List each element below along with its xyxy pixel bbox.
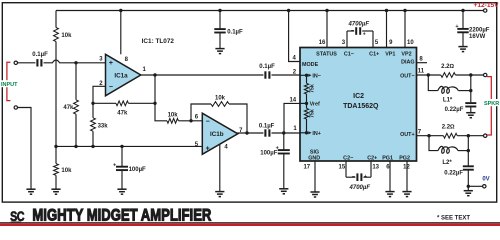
inductor L1 [428, 75, 471, 93]
wire: IC1b output to coupling cap [238, 132, 264, 135]
node: bias at 47k [74, 145, 77, 148]
wire: IC1a pin2 input [93, 86, 106, 103]
capacitor 0.1uF to IN+ [265, 129, 269, 136]
wire: internal input chain [300, 75, 307, 133]
svg-text:10: 10 [407, 40, 414, 46]
label DIAG [401, 59, 414, 65]
capacitor 100uF at IN+ [278, 150, 290, 153]
node: rail junction at 2200uF [461, 9, 464, 12]
svg-text:C1−: C1− [344, 51, 354, 57]
wire: 2.2ohm to terminal OUT- [455, 74, 483, 76]
node: IC1b output junction [245, 131, 248, 134]
label 33k [98, 124, 109, 130]
svg-text:OUT+: OUT+ [400, 132, 415, 138]
label 0.1uF decoupling [227, 29, 243, 35]
wire: cap to IC2 pin1 [272, 132, 301, 134]
node: rail junction at pin16 [325, 9, 328, 12]
wire: to 0V terminal [468, 185, 482, 187]
svg-text:0.1µF: 0.1µF [32, 52, 48, 58]
label minus C2 [352, 174, 355, 180]
terminal: input bottom [14, 106, 17, 109]
ground PG2 [402, 192, 411, 197]
label 100uF IN+ [260, 151, 277, 157]
svg-text:+: + [455, 24, 458, 30]
wire: input ground leg [18, 108, 31, 190]
label + 100uF IN+ [276, 145, 279, 151]
ground 100uF bias [117, 189, 126, 194]
svg-text:75k: 75k [310, 109, 316, 118]
node: IC1b -input node [189, 119, 192, 122]
svg-text:C2−: C2− [343, 155, 353, 161]
ground 2200uF [458, 47, 467, 52]
wire: OUT- junction down to 0.22uF [470, 75, 472, 102]
svg-text:47k: 47k [63, 105, 74, 111]
svg-text:0V: 0V [482, 176, 489, 182]
wire: cap to IC1a pin3 with hop [44, 60, 106, 63]
svg-text:* SEE TEXT: * SEE TEXT [437, 216, 470, 222]
wire: pin10 VP2 to rail [404, 11, 406, 48]
wire: 2.2ohm to terminal OUT+ [457, 135, 483, 137]
svg-text:10k: 10k [168, 113, 179, 119]
wire: 0.22uF OUT- to ground [470, 107, 472, 113]
label 75k lower [310, 109, 316, 118]
svg-text:IC1a: IC1a [114, 73, 128, 80]
label 100uF bias [129, 167, 146, 173]
label L1* [443, 97, 453, 103]
svg-text:IC2: IC2 [353, 93, 364, 100]
label pin10 [407, 40, 414, 46]
svg-text:2.2Ω: 2.2Ω [442, 125, 455, 131]
wire: MODE pin4 to rail [289, 11, 300, 62]
terminal OUT- [484, 73, 487, 76]
label C2+ [367, 155, 377, 161]
wire: bias node to 10k lower [55, 146, 57, 163]
wire: OUT- lead [417, 74, 441, 76]
svg-text:OUT−: OUT− [400, 73, 415, 79]
label 47k feedback [117, 110, 128, 116]
ground SIG GND [310, 192, 319, 197]
svg-text:VP1: VP1 [385, 51, 395, 57]
label pin7 IC2 [418, 129, 422, 135]
node: rail junction at pin10 [403, 9, 406, 12]
ground PG1 [385, 192, 394, 197]
wire: OUT+ junction down to 0.22uF [467, 136, 469, 167]
node: feedback right junction [153, 102, 156, 105]
svg-text:4700µF: 4700µF [349, 185, 371, 191]
wire: rail to 10k upper [55, 11, 57, 28]
speaker bracket (red) [487, 77, 491, 135]
capacitor 4700uF C1 [356, 27, 360, 35]
label 47k input [63, 105, 74, 111]
label 10k upper [61, 33, 72, 39]
node: rail junction at decoupling cap [218, 9, 221, 12]
svg-text:STATUS: STATUS [316, 51, 337, 57]
op-amp IC1a [106, 54, 141, 96]
wire: 10k upper to bias node [55, 42, 57, 147]
resistor 10k upper divider [54, 28, 59, 42]
label 0.1uF IN- [259, 64, 275, 70]
wire: 10k lower to ground [55, 175, 57, 189]
wire: cap to IC2 pin2 [272, 74, 301, 76]
wire: 47k fb right lead [128, 102, 155, 104]
resistor 47k feedback IC1a [116, 101, 128, 106]
label SPKR [484, 99, 500, 107]
label pin13 [372, 164, 379, 170]
bottom rule [0, 222, 500, 223]
svg-text:4700µF: 4700µF [348, 21, 370, 27]
capacitor 0.22uF OUT+ [463, 166, 474, 169]
wire: pin17 SIG GND to ground [314, 161, 316, 192]
IC U2 TDA1562Q body [300, 48, 417, 162]
svg-text:L1*: L1* [443, 97, 453, 103]
node: bias at 33k [91, 145, 94, 148]
svg-text:14: 14 [289, 98, 296, 104]
wire: pin8 DIAG stub [417, 62, 428, 64]
label pin7 IC1b [239, 128, 243, 134]
wire: C1 bridge [347, 30, 373, 32]
label OUT+ [400, 132, 415, 138]
input bracket (red) [7, 62, 10, 100]
svg-text:2200µF: 2200µF [469, 27, 490, 33]
wire: pin6 PG1 to ground [389, 161, 391, 192]
node: internal IN- [305, 74, 308, 77]
label 10k lower [61, 168, 72, 174]
wire: node to 47k [75, 63, 77, 100]
resistor 33k [91, 118, 96, 131]
wire: output down to feedback [154, 75, 156, 103]
label pin12 [403, 164, 410, 170]
label plus C2 [364, 174, 367, 180]
capacitor 100uF bias bypass [116, 167, 128, 170]
svg-text:+: + [206, 145, 210, 152]
svg-text:VP2: VP2 [401, 51, 411, 57]
node: OUT+ L2 tap [427, 134, 430, 137]
label 0.22uF OUT- [445, 107, 464, 113]
label pin4 IC2 [293, 55, 297, 61]
svg-text:100µF: 100µF [129, 167, 146, 173]
svg-text:0.1µF: 0.1µF [259, 64, 275, 70]
node: IC1a output junction [153, 73, 156, 76]
wire: fb left leg IC1b [191, 104, 211, 121]
label VP2 [401, 51, 411, 57]
svg-text:IC1: TL072: IC1: TL072 [142, 38, 175, 45]
label 2.2ohm OUT+ [442, 125, 455, 131]
label pin1 IC1a [143, 67, 147, 73]
node: rail junction at IC1 pin8 [119, 9, 122, 12]
label 4700uF C2 [349, 185, 371, 191]
svg-text:0.22µF: 0.22µF [445, 107, 464, 113]
label C2- [343, 155, 353, 161]
capacitor 2200uF reservoir [457, 29, 468, 32]
resistor 75k internal lower [304, 108, 308, 119]
svg-text:0.1µF: 0.1µF [227, 29, 243, 35]
svg-text:−: − [206, 118, 210, 125]
label pin4 IC1b [224, 145, 228, 151]
wire: pin16 STATUS to rail [326, 11, 328, 48]
node: IC1a -input node [91, 102, 94, 105]
label SIG GND [308, 150, 320, 162]
svg-text:75k: 75k [310, 84, 316, 93]
label 10k feedback IC1b [215, 95, 226, 101]
svg-text:IC1b: IC1b [210, 131, 224, 138]
ground input [26, 189, 35, 194]
wire: 100uF to ground [121, 170, 123, 189]
capacitor 0.1uF decoupling [214, 29, 225, 32]
node: L2 right junction [467, 149, 470, 152]
label L2* [442, 160, 452, 166]
wire: IN+ node to 100uF [283, 133, 285, 150]
label pin3 IC2 [342, 40, 346, 46]
op-amp IC1b [202, 113, 238, 154]
label pin11 [418, 69, 425, 75]
wire: 47k fb left lead [93, 102, 116, 104]
label pin1 IC2 [293, 126, 297, 132]
label pin3 IC1a [99, 57, 103, 63]
svg-text:12: 12 [403, 164, 410, 170]
wire: rail to decoupling cap [219, 11, 221, 30]
node: bias at 100uF [120, 145, 123, 148]
label 4700uF C1 [348, 21, 370, 27]
label Vref [310, 101, 320, 107]
svg-text:16: 16 [319, 40, 326, 46]
ground 0.22uF OUT- [466, 113, 475, 118]
node: IC1a +input junction [74, 61, 77, 64]
bottom red strip [0, 223, 500, 226]
node: OUT- L1 tap [427, 73, 430, 76]
wire: 2200uF to ground [462, 32, 464, 46]
terminal 0V [483, 185, 486, 188]
svg-text:−: − [109, 84, 113, 91]
label 10k interstage [168, 113, 179, 119]
label 0V [482, 176, 489, 182]
wire: pin9 VP1 to rail [386, 11, 388, 48]
logo SC [10, 209, 24, 225]
label MODE [302, 62, 319, 68]
wire: node to 33k [92, 103, 94, 118]
wire: 47k to bias rail [75, 114, 77, 146]
node: IN+ node [282, 131, 285, 134]
label PG2 [399, 155, 410, 161]
svg-text:10k: 10k [61, 33, 72, 39]
svg-text:100µF: 100µF [260, 151, 277, 157]
capacitor 0.1uF input coupling [37, 59, 41, 66]
resistor 2.2ohm OUT- [441, 73, 456, 78]
label 75k upper [310, 84, 316, 93]
label plus C1 [363, 32, 366, 38]
svg-text:47k: 47k [117, 110, 128, 116]
svg-text:PG1: PG1 [382, 155, 393, 161]
label INPUT [1, 80, 18, 88]
svg-text:C2+: C2+ [367, 155, 377, 161]
label STATUS [316, 51, 337, 57]
svg-text:−: − [352, 174, 355, 180]
label IN+ [308, 131, 321, 137]
svg-text:17: 17 [303, 164, 310, 170]
wire: pin15 C2- stub [345, 161, 347, 177]
svg-text:IN+: IN+ [312, 131, 321, 137]
wire: pin5 C1+ stub [372, 31, 374, 48]
svg-text:MIGHTY MIDGET AMPLIFIER: MIGHTY MIDGET AMPLIFIER [32, 205, 211, 224]
ground 0V [464, 191, 473, 196]
svg-text:TDA1562Q: TDA1562Q [343, 103, 379, 110]
svg-text:0.1µF: 0.1µF [259, 124, 275, 130]
label +12-15V [473, 2, 499, 9]
capacitor 4700uF C2 [357, 173, 361, 181]
svg-text:INPUT: INPUT [1, 82, 18, 88]
wire: pin13 C2+ stub [370, 161, 372, 177]
wire: pin12 PG2 to ground [406, 161, 408, 192]
label pin5 IC1b [195, 142, 199, 148]
node: internal Vref [305, 102, 308, 105]
wire: bias to 100uF [121, 146, 123, 166]
wire: decoupling cap to ground [219, 33, 221, 49]
label + 100uF bias [113, 163, 116, 169]
wire: 33k to bias rail [92, 131, 94, 146]
node: L1 right junction [469, 89, 472, 92]
label PG1 [382, 155, 393, 161]
wire: OUT+ lead [417, 135, 444, 137]
label 16VW [469, 34, 486, 40]
terminal OUT+ [484, 134, 487, 137]
label 2.2ohm OUT- [441, 64, 454, 70]
svg-text:15: 15 [339, 164, 346, 170]
label C1- [344, 51, 354, 57]
label 0.1uF IN+ [259, 124, 275, 130]
wire: IC1a output run to IC2 IN- [141, 74, 264, 76]
label minus C1 [351, 28, 354, 34]
label 0.22uF OUT+ [444, 170, 463, 176]
svg-text:+: + [364, 174, 367, 180]
label pin14 IC2 [289, 98, 296, 104]
svg-text:33k: 33k [98, 124, 109, 130]
label 2200uF [469, 27, 490, 33]
label SEE TEXT [437, 216, 470, 222]
title MIGHTY MIDGET AMPLIFIER [32, 205, 211, 224]
svg-text:13: 13 [372, 164, 379, 170]
label pin2 IC1a [99, 81, 103, 87]
svg-text:11: 11 [418, 69, 425, 75]
node: OUT- output junction [469, 73, 472, 76]
capacitor 0.22uF OUT- [465, 103, 476, 106]
resistor 2.2ohm OUT+ [443, 133, 457, 138]
wire: 100uF to ground [283, 154, 285, 189]
svg-text:C1+: C1+ [369, 51, 379, 57]
svg-text:2.2Ω: 2.2Ω [441, 64, 454, 70]
svg-text:10k: 10k [61, 168, 72, 174]
node: rail junction at MODE [287, 9, 290, 12]
label pin6 IC2 [386, 164, 390, 170]
ground decoupling [215, 49, 224, 54]
wire: rail to 2200uF [462, 11, 464, 29]
label IC1: TL072 [142, 38, 175, 45]
resistor 10k interstage [167, 118, 178, 123]
wire: input to coupling cap [18, 62, 36, 64]
node: OUT+ output junction [467, 134, 470, 137]
svg-text:+: + [363, 32, 366, 38]
wire: IC1b pin4 to ground [219, 144, 221, 191]
wire: +12V supply rail [56, 10, 483, 12]
terminal: +12-15V supply [484, 9, 487, 12]
wire: IC1a pin8 to rail [120, 11, 122, 55]
inductor L2 [429, 136, 468, 154]
svg-text:−: − [351, 28, 354, 34]
svg-text:+: + [109, 60, 113, 67]
svg-text:DIAG: DIAG [401, 59, 414, 65]
svg-text:10k: 10k [215, 95, 226, 101]
label OUT- [400, 73, 415, 79]
svg-text:+12-15V: +12-15V [473, 2, 499, 9]
label pin9 [389, 40, 393, 46]
resistor 47k input bias [74, 100, 79, 114]
ground 100uF IN+ [279, 189, 288, 194]
svg-text:+: + [113, 163, 116, 169]
terminal: input top [14, 61, 17, 64]
label VP1 [385, 51, 395, 57]
label pin8 IC2 [419, 56, 423, 62]
ground divider [51, 189, 60, 194]
svg-text:MODE: MODE [302, 62, 319, 68]
wire: output node down to 10k [155, 103, 167, 121]
label pin6 IC1b [195, 115, 199, 121]
capacitor 0.1uF to IN- [265, 71, 269, 78]
label + 2200uF [455, 24, 458, 30]
ground IC1b pin4 [215, 192, 224, 197]
label IN- [308, 73, 321, 79]
label pin2 IC2 [293, 69, 297, 75]
wire: fb right leg IC1b [229, 104, 247, 133]
label pin5 IC2 [375, 40, 379, 46]
label C1+ [369, 51, 379, 57]
resistor 75k internal upper [304, 83, 308, 94]
node: rail junction at pin9 [385, 9, 388, 12]
wire: 10k to IC1b pin6 [178, 120, 202, 122]
svg-text:IN−: IN− [312, 73, 321, 79]
svg-text:L2*: L2* [442, 160, 452, 166]
wire: 0.22uF OUT+ to 0V [467, 170, 469, 191]
node: internal IN+ [305, 131, 308, 134]
label 0.1uF input [32, 52, 48, 58]
wire: half-supply bias rail [56, 145, 202, 147]
resistor 10k feedback IC1b [211, 102, 229, 107]
svg-text:PG2: PG2 [399, 155, 410, 161]
svg-text:16VW: 16VW [469, 34, 486, 40]
label pin15 [339, 164, 346, 170]
svg-text:GND: GND [308, 155, 320, 161]
svg-text:0.22µF: 0.22µF [444, 170, 463, 176]
wire: C2 bridge [346, 176, 371, 178]
svg-text:SPKR: SPKR [484, 101, 499, 107]
label pin17 [303, 164, 310, 170]
node: bias at divider [54, 145, 57, 148]
wire: pin3 C1- stub [346, 31, 348, 48]
wire: Vref pin14 to IN+ node [284, 103, 300, 133]
svg-text:Vref: Vref [310, 101, 320, 107]
node: 0V junction [467, 185, 470, 188]
label pin16 [319, 40, 326, 46]
label pin8 IC1a [125, 57, 129, 63]
resistor 10k lower divider [54, 164, 59, 176]
